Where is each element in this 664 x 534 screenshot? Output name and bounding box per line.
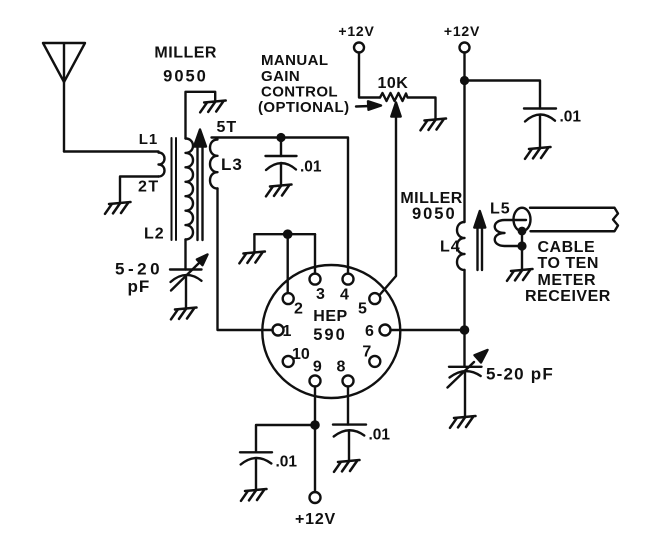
node shield connection [518, 227, 527, 236]
svg-text:3: 3 [316, 286, 325, 303]
svg-text:L3: L3 [221, 155, 243, 174]
inductor L2 (main tuned winding) [186, 139, 194, 240]
svg-text:L4: L4 [440, 239, 461, 256]
svg-text:9: 9 [313, 359, 322, 376]
svg-text:2T: 2T [138, 179, 160, 196]
wire antenna lead down [63, 82, 65, 152]
capacitor C1 .01 plates [266, 155, 297, 157]
wire pin 9 down to +12V [314, 386, 316, 492]
svg-text:4: 4 [340, 287, 349, 304]
pin 2 [283, 293, 294, 304]
coax cable to receiver [514, 208, 531, 232]
wire C2 to ground [539, 115, 541, 147]
capacitor C3 .01 plates [333, 423, 366, 425]
svg-text:(OPTIONAL): (OPTIONAL) [258, 99, 350, 116]
pin 6 [380, 325, 391, 336]
VC1 adjust arrow [171, 262, 200, 291]
svg-text:HEP: HEP [313, 308, 347, 325]
svg-text:5: 5 [358, 301, 367, 318]
+12V terminal (bottom) [310, 492, 321, 503]
svg-text:590: 590 [313, 326, 347, 344]
wire +12V down to L4 [463, 53, 465, 223]
ground (cable shield) [507, 269, 533, 281]
svg-text:RECEIVER: RECEIVER [525, 288, 611, 305]
inductor L5 (link winding) [495, 220, 526, 246]
wire VC1 to ground [185, 276, 187, 308]
junction node (pin 9/C3/C4) [310, 420, 320, 430]
wire antenna to L1 [64, 152, 159, 153]
ground (C2) [525, 147, 551, 159]
pin 1 [273, 325, 284, 336]
ground (L2 top) [200, 101, 226, 113]
svg-text:2: 2 [294, 301, 303, 318]
ground (pins 2,3) [239, 252, 265, 264]
pin 10 [283, 356, 294, 367]
wire L1 bottom to ground [120, 177, 159, 203]
wire +12V to 10K pot [359, 53, 380, 98]
svg-text:8: 8 [337, 359, 346, 376]
wire VC2 to ground [464, 372, 466, 416]
manual gain control pointer arrow [356, 105, 370, 108]
ground (C1) [266, 185, 292, 197]
svg-text:10K: 10K [378, 75, 409, 92]
svg-text:L2: L2 [144, 226, 165, 243]
capacitor C1 .01 lead [280, 138, 282, 157]
pin 4 [343, 274, 354, 285]
svg-text:.01: .01 [300, 159, 322, 176]
+12V terminal (top right) [460, 43, 470, 53]
svg-text:9050: 9050 [163, 68, 208, 86]
pin 9 [310, 375, 321, 386]
svg-text:9050: 9050 [412, 205, 457, 223]
junction node (pin6/L4/VC2) [460, 325, 470, 335]
ground (10K pot) [421, 119, 447, 131]
svg-text:L1: L1 [139, 131, 159, 148]
wire pin 3 up [314, 234, 316, 273]
tuning slug arrow T1 [198, 146, 203, 240]
wire branch to C2 [465, 81, 541, 109]
pot wiper arrow [391, 103, 400, 117]
svg-text:MILLER: MILLER [154, 45, 217, 62]
svg-text:L5: L5 [490, 201, 511, 218]
transformer T1 core [172, 138, 177, 240]
svg-text:CONTROL: CONTROL [261, 84, 338, 101]
svg-text:MANUAL: MANUAL [261, 52, 328, 69]
inductor L4 (Miller 9050 primary) [457, 222, 465, 270]
antenna [43, 43, 85, 82]
ground (C3) [334, 460, 360, 472]
svg-text:.01: .01 [369, 427, 391, 444]
svg-text:5T: 5T [217, 119, 238, 136]
wire to cable ground [521, 246, 523, 269]
svg-text:5-20 pF: 5-20 pF [486, 365, 554, 384]
svg-text:.01: .01 [276, 454, 298, 471]
wire L2 bottom to VC1 [184, 240, 186, 270]
svg-text:6: 6 [365, 323, 374, 340]
pin 7 [369, 356, 380, 367]
wire L2 top to ground elbow [186, 92, 216, 139]
VC2 adjust arrow [448, 362, 475, 388]
inductor L1 (2T winding) [159, 153, 165, 177]
svg-text:1: 1 [283, 323, 292, 340]
ground (C4) [241, 489, 267, 501]
wire wiper to pin 5 [379, 116, 396, 295]
wire pin 6 to node [391, 329, 465, 331]
wire C3 to ground [348, 431, 350, 461]
svg-text:pF: pF [128, 277, 151, 296]
ground (L1 return) [105, 202, 131, 214]
svg-text:.01: .01 [560, 109, 582, 126]
wire L4 bottom to pin 6 node [463, 270, 465, 330]
wire node to C4 [256, 425, 315, 452]
svg-text:+12V: +12V [444, 23, 480, 39]
capacitor C4 .01 plates [240, 451, 272, 453]
potentiometer R1 10K zigzag [380, 93, 436, 119]
junction node (pin 2 tap) [283, 229, 293, 239]
op-amp U1 HEP 590 can outline [262, 265, 400, 398]
ground (VC2) [450, 416, 476, 428]
pin 8 [343, 375, 354, 386]
wire shield down [521, 231, 523, 246]
svg-text:GAIN: GAIN [261, 68, 300, 85]
junction node (+12V branch) [460, 76, 469, 85]
inductor L3 (5T link) [210, 140, 218, 189]
svg-text:5-20: 5-20 [115, 260, 163, 279]
wire pin 8 down to C3 [347, 386, 349, 424]
wire elbow down [253, 234, 255, 251]
svg-text:METER: METER [538, 272, 597, 289]
pin 5 [369, 293, 380, 304]
wire L3 bottom to pin 1 [218, 189, 273, 331]
svg-text:+12V: +12V [338, 23, 374, 39]
wire C4 to ground [255, 459, 257, 490]
junction node (L5/shield) [517, 241, 526, 250]
wire node to VC2 [463, 330, 465, 367]
wire pins 2,3 bus to ground elbow [254, 233, 315, 235]
junction node (top wire to C1) [276, 133, 285, 142]
ground (VC1) [171, 308, 197, 320]
svg-text:+12V: +12V [295, 511, 336, 528]
potentiometer +12V terminal [354, 43, 364, 53]
svg-text:10: 10 [292, 346, 310, 363]
variable capacitor VC2 5-20pF plates [449, 366, 482, 368]
tuning slug arrow T2 [478, 227, 483, 270]
wire 5T link top (L3 to pin 4) [212, 138, 349, 274]
wire C1 to ground [280, 163, 282, 184]
pin 3 [310, 274, 321, 285]
svg-text:TO TEN: TO TEN [538, 255, 599, 272]
svg-text:CABLE: CABLE [538, 239, 596, 256]
variable capacitor VC1 5-20pF plates [170, 268, 202, 270]
capacitor C2 .01 plates [524, 107, 556, 109]
wire pin 2 [287, 234, 289, 293]
svg-text:7: 7 [362, 344, 371, 361]
